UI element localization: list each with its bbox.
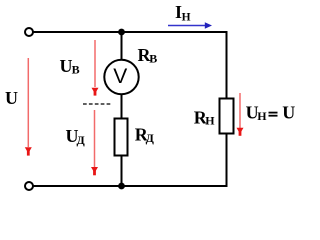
wire right branch upper [226,31,228,98]
arrow Un (red) [237,93,244,136]
wire middle branch top [121,32,123,61]
svg-text:U: U [282,103,295,123]
svg-text:В: В [72,62,80,76]
node junction top [118,29,125,36]
resistor Rd body [115,119,128,156]
wire middle branch between voltmeter and Rd [121,93,123,118]
arrow Ud (red) [91,110,98,175]
svg-text:Н: Н [205,113,215,127]
arrow Uv (red) [92,40,99,96]
wire right branch lower [226,134,228,187]
svg-text:Д: Д [146,131,155,145]
svg-text:Н: Н [257,109,267,123]
terminal bottom-left [25,182,33,190]
dashed separator line [83,103,111,105]
resistor Rn body [220,99,234,134]
wire middle branch bottom [121,156,123,186]
svg-text:В: В [149,52,157,66]
wire bottom horizontal [32,185,227,187]
arrow In (blue) [168,22,212,28]
arrow U (left, red) [25,58,32,156]
op voltmeter V (Rv) circle [104,60,138,94]
svg-text:V: V [113,65,127,88]
svg-text:Н: Н [182,11,191,23]
svg-text:U: U [60,56,73,76]
node junction bottom [118,183,125,190]
svg-text:Д: Д [77,133,86,147]
svg-text:U: U [5,88,18,108]
wire top horizontal [32,31,227,33]
terminal top-left [25,28,33,36]
